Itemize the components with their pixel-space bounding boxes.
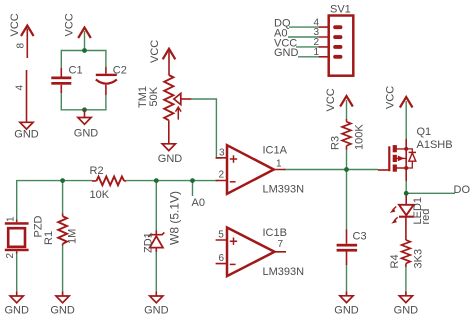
svg-text:C2: C2 [113, 65, 127, 77]
svg-text:Q1: Q1 [417, 126, 432, 138]
svg-text:R3: R3 [330, 136, 342, 150]
svg-text:VCC: VCC [385, 86, 397, 109]
svg-text:DO: DO [454, 184, 471, 196]
svg-text:GND: GND [74, 128, 99, 140]
svg-text:100K: 100K [354, 124, 366, 150]
svg-text:A0: A0 [192, 197, 205, 209]
svg-text:VCC: VCC [64, 13, 76, 36]
svg-text:5: 5 [218, 230, 224, 241]
svg-text:GND: GND [158, 153, 183, 165]
svg-text:GND: GND [394, 305, 419, 317]
svg-text:1: 1 [6, 216, 17, 222]
svg-text:SV1: SV1 [330, 4, 351, 16]
svg-text:2: 2 [5, 253, 16, 259]
svg-text:LM393N: LM393N [263, 266, 305, 278]
svg-text:10K: 10K [90, 189, 110, 201]
svg-text:GND: GND [144, 305, 169, 317]
svg-text:C1: C1 [69, 65, 83, 77]
svg-text:6: 6 [218, 253, 224, 264]
svg-text:A1SHB: A1SHB [417, 139, 453, 151]
svg-text:1: 1 [313, 47, 319, 58]
svg-text:3K3: 3K3 [413, 249, 425, 269]
svg-text:7: 7 [278, 239, 284, 250]
svg-text:W8 (5.1V): W8 (5.1V) [168, 191, 182, 245]
svg-text:VCC: VCC [325, 88, 337, 111]
svg-text:VCC: VCC [149, 40, 161, 63]
svg-text:R2: R2 [90, 165, 104, 177]
svg-text:IC1A: IC1A [263, 145, 288, 157]
svg-text:GND: GND [50, 305, 75, 317]
svg-text:1: 1 [276, 159, 282, 170]
svg-text:R1: R1 [43, 231, 55, 245]
svg-text:GND: GND [274, 47, 299, 59]
svg-text:3: 3 [219, 147, 225, 158]
svg-text:50K: 50K [148, 86, 160, 106]
svg-text:red: red [420, 209, 432, 225]
svg-text:R4: R4 [389, 254, 401, 268]
svg-text:4: 4 [15, 85, 26, 91]
svg-text:GND: GND [14, 128, 39, 140]
svg-text:2: 2 [218, 170, 224, 181]
svg-text:GND: GND [334, 305, 359, 317]
svg-text:LM393N: LM393N [263, 184, 305, 196]
svg-text:8: 8 [16, 43, 27, 49]
svg-text:VCC: VCC [9, 13, 21, 36]
svg-text:ZD1: ZD1 [143, 232, 155, 253]
svg-text:GND: GND [4, 305, 29, 317]
svg-text:PZD: PZD [33, 215, 45, 237]
svg-text:IC1B: IC1B [263, 227, 287, 239]
svg-text:1M: 1M [67, 229, 79, 244]
svg-text:C3: C3 [353, 231, 367, 243]
